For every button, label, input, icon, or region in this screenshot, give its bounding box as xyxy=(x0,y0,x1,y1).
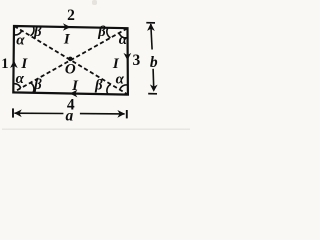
svg-text:1: 1 xyxy=(1,56,8,72)
label 2 (top side) xyxy=(67,7,75,24)
faint scan artifact line at bottom xyxy=(2,0,190,130)
svg-text:2: 2 xyxy=(67,7,75,24)
svg-text:β: β xyxy=(94,77,103,93)
angle label alpha bottom-left xyxy=(16,71,25,87)
current label I (left side) xyxy=(20,56,28,72)
rectangle loop outline xyxy=(13,26,128,95)
angle arc beta at bottom-left corner xyxy=(30,83,34,93)
svg-text:β: β xyxy=(97,24,106,40)
angle label beta bottom-left xyxy=(33,77,42,93)
svg-text:a: a xyxy=(66,108,74,125)
angle label beta bottom-right xyxy=(94,77,103,93)
label 3 (right side) xyxy=(133,52,141,69)
angle arc beta at top-right corner xyxy=(107,28,111,38)
angle label beta top-right xyxy=(97,24,106,40)
diagonal TR-BL (dashed) xyxy=(13,28,127,92)
dimension line a (bottom, double arrow) xyxy=(13,108,127,118)
svg-text:b: b xyxy=(150,54,158,71)
angle arc alpha at top-right corner xyxy=(119,33,127,38)
angle arc alpha at bottom-right corner xyxy=(120,85,128,90)
angle arc alpha at top-left corner xyxy=(14,31,22,35)
svg-text:β: β xyxy=(33,77,42,93)
node O center dot xyxy=(68,57,73,62)
current arrow on side 1 (left, pointing up) xyxy=(10,60,18,68)
current label I (right side) xyxy=(112,56,120,72)
angle label alpha top-right xyxy=(119,32,128,48)
angle arc alpha at bottom-left corner xyxy=(13,84,20,88)
current arrow on side 2 (top, pointing right) xyxy=(63,23,71,31)
dimension label b xyxy=(150,54,158,71)
svg-text:α: α xyxy=(116,72,125,88)
label 1 (left side) xyxy=(1,56,8,72)
dimension label a xyxy=(66,108,74,125)
svg-text:β: β xyxy=(33,24,42,40)
svg-text:I: I xyxy=(63,31,71,47)
label O xyxy=(65,62,76,78)
angle arc beta at top-left corner xyxy=(30,26,34,35)
svg-text:I: I xyxy=(71,78,79,94)
svg-text:α: α xyxy=(16,71,25,87)
svg-text:I: I xyxy=(20,56,28,72)
current label I (top side) xyxy=(63,31,71,47)
dimension line b (right side, double arrow) xyxy=(146,23,157,94)
current arrow on side 4 (bottom, pointing left) xyxy=(70,90,78,98)
angle label beta top-left xyxy=(33,24,42,40)
svg-text:I: I xyxy=(112,56,120,72)
svg-text:3: 3 xyxy=(133,52,141,69)
svg-text:O: O xyxy=(65,62,76,78)
angle label alpha bottom-right xyxy=(116,72,125,88)
angle label alpha top-left xyxy=(16,33,25,49)
svg-text:α: α xyxy=(16,33,25,49)
label 4 (bottom side) xyxy=(67,97,75,114)
current label I (bottom side) xyxy=(71,78,79,94)
angle arc beta at bottom-right corner xyxy=(107,84,111,94)
current arrow on side 3 (right, pointing down) xyxy=(124,53,132,60)
svg-text:α: α xyxy=(119,32,128,48)
diagonal TL-BR (dashed) xyxy=(14,26,128,94)
